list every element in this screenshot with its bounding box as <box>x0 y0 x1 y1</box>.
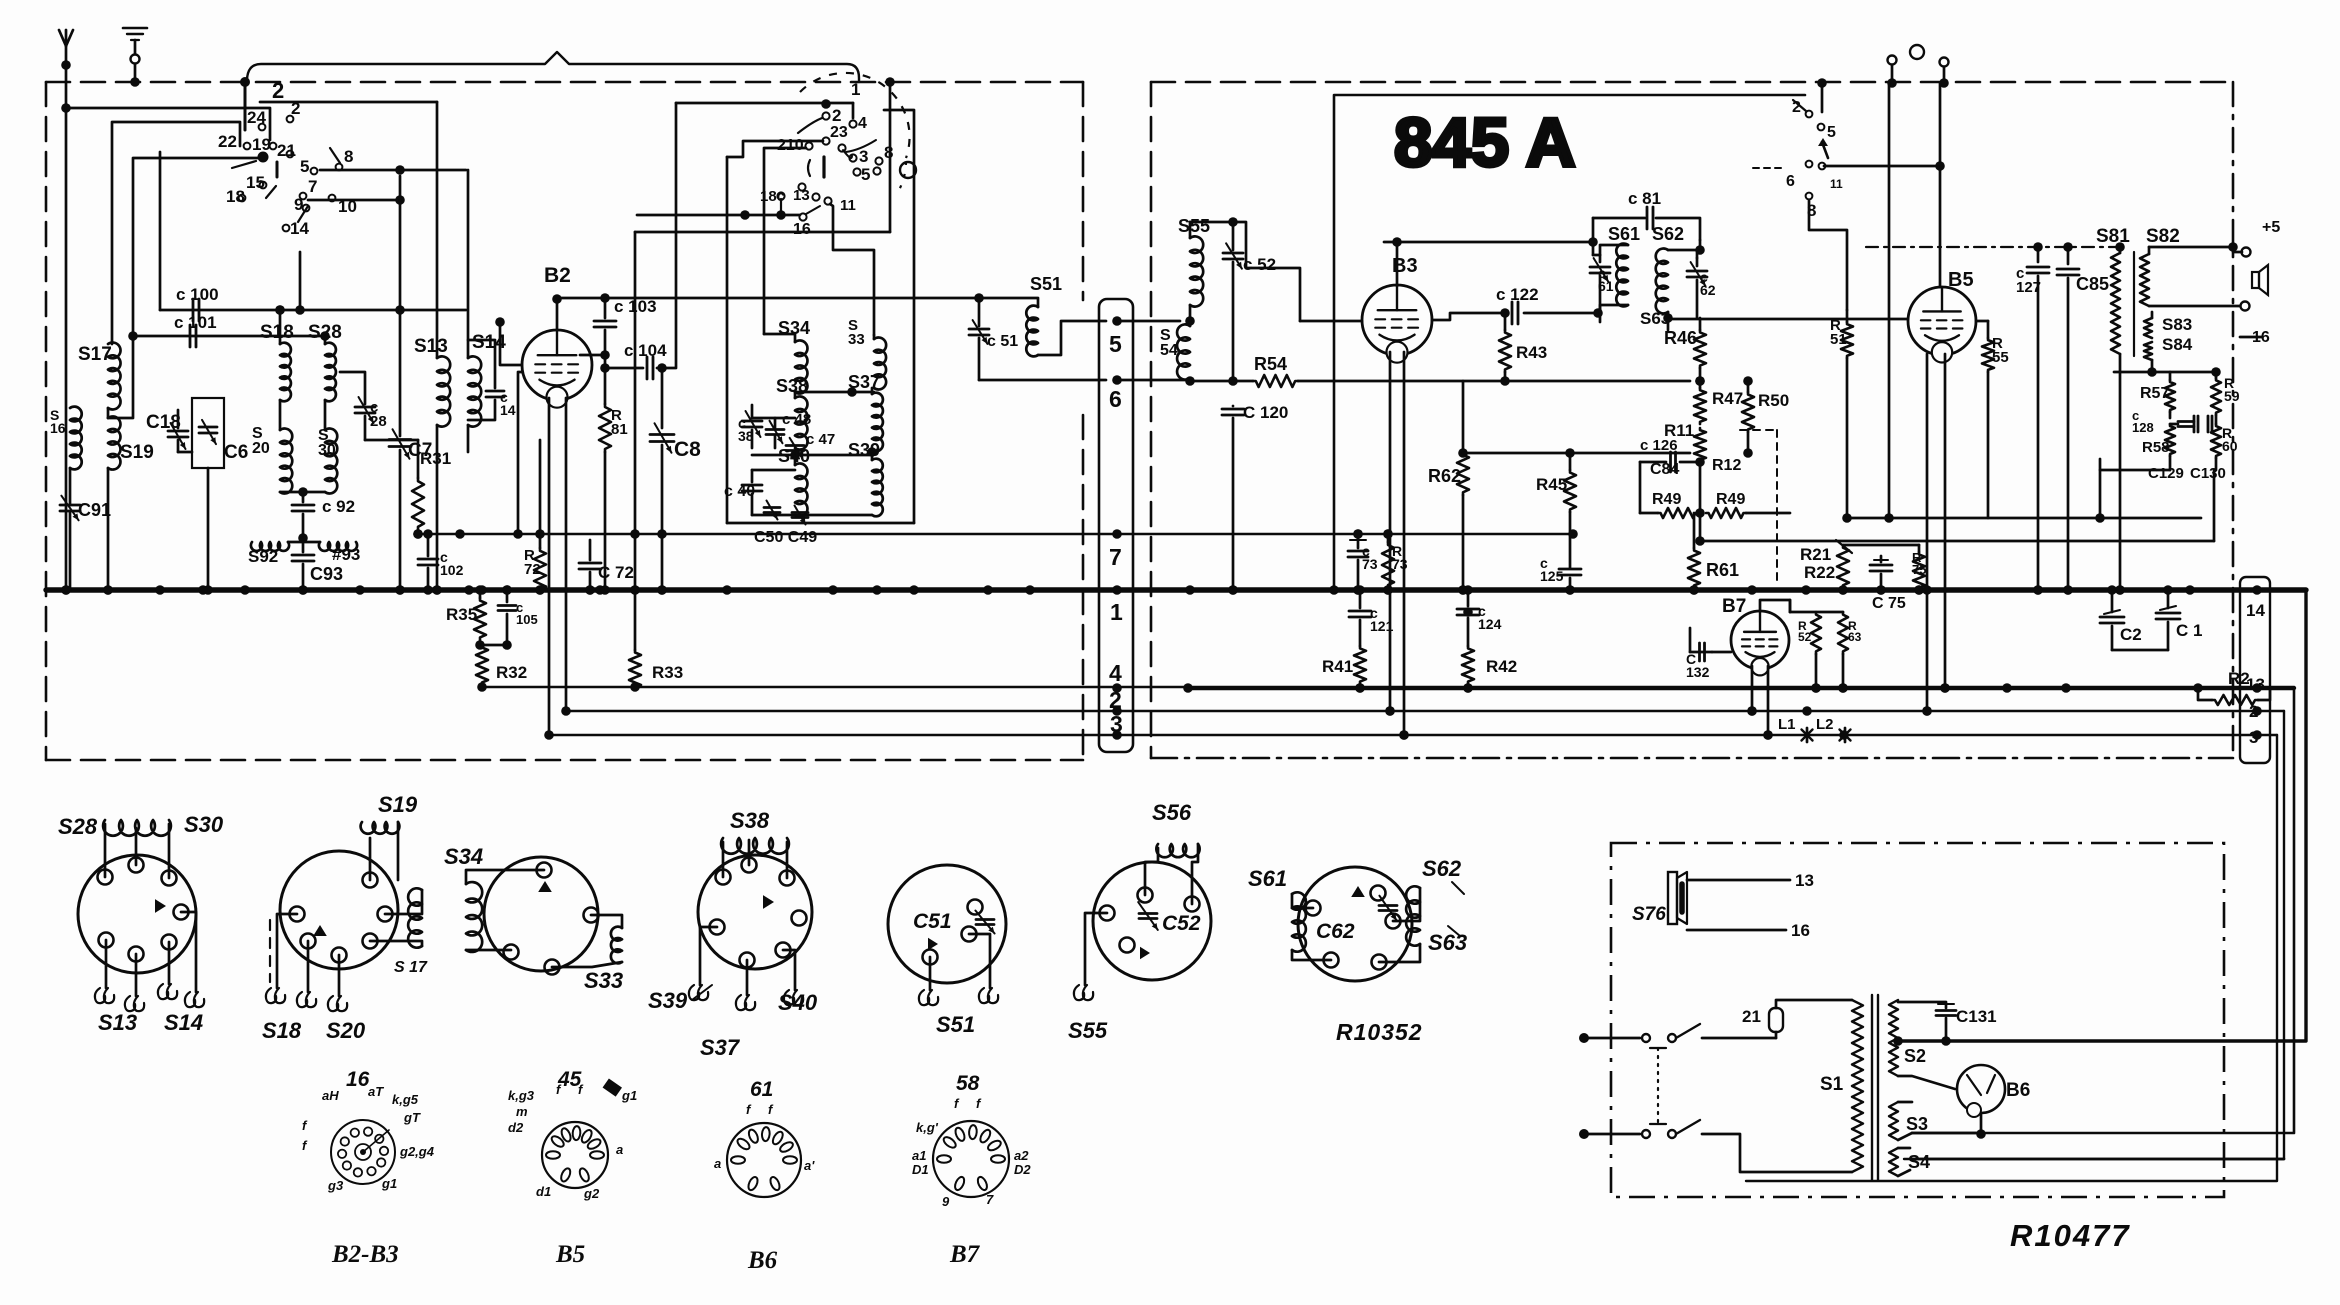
shield canopy <box>247 52 859 82</box>
osc switch contacts <box>777 112 882 220</box>
svg-text:B6: B6 <box>747 1247 778 1274</box>
bus junction <box>155 585 165 595</box>
duct pin 5 <box>1109 331 1122 357</box>
antenna feed <box>61 65 71 595</box>
pin label f <box>954 1096 960 1111</box>
claw S51 <box>919 988 998 1005</box>
svg-text:1: 1 <box>1110 599 1123 625</box>
claw S18 <box>266 988 316 1007</box>
wire <box>1817 78 1827 112</box>
wire <box>295 252 305 315</box>
svg-text:c 92: c 92 <box>322 497 355 516</box>
coil S33 side <box>552 915 622 967</box>
svg-text:8: 8 <box>344 147 353 166</box>
pin label f <box>302 1138 308 1153</box>
label S33 <box>848 317 865 348</box>
label C40 <box>724 483 755 500</box>
wire <box>1702 1037 1776 1040</box>
wire <box>1702 1134 1852 1172</box>
label C121 <box>1370 605 1394 634</box>
svg-text:16: 16 <box>50 420 66 436</box>
svg-text:S83: S83 <box>2162 315 2192 334</box>
label R10477 <box>2010 1218 2131 1253</box>
osc pin 13 <box>793 187 810 204</box>
coil S34 side <box>466 870 544 952</box>
wire <box>260 101 437 104</box>
label S33 <box>584 968 623 993</box>
wire <box>1687 879 1790 882</box>
B2 heater leg <box>544 398 554 740</box>
label S19 <box>378 792 418 817</box>
svg-text:C50 C49: C50 C49 <box>754 529 817 546</box>
svg-text:m: m <box>516 1104 528 1119</box>
wire <box>1976 1113 1986 1139</box>
wire <box>1600 305 1628 322</box>
svg-text:C18: C18 <box>146 412 181 433</box>
label R35 <box>446 605 477 624</box>
wire <box>1824 161 1945 171</box>
wire <box>277 914 308 992</box>
coil S33 <box>874 335 886 390</box>
label 16 <box>1791 921 1810 940</box>
wire B3 grid <box>1300 320 1362 323</box>
svg-text:22: 22 <box>218 132 237 151</box>
svg-text:S56: S56 <box>1152 800 1192 825</box>
svg-text:S92: S92 <box>248 547 278 566</box>
wire <box>2149 242 2238 252</box>
pin label f <box>556 1082 562 1097</box>
label R43 <box>1516 343 1547 362</box>
switch pin 15 <box>246 173 265 192</box>
arrow <box>928 938 938 950</box>
svg-text:125: 125 <box>1540 568 1564 584</box>
former S34/S33 <box>484 857 599 975</box>
former S18/S20/S19 <box>280 851 398 969</box>
label R21 <box>1800 545 1831 564</box>
osc pin 2 <box>832 106 841 125</box>
svg-text:C130: C130 <box>2190 465 2226 482</box>
socket name B5 <box>555 1241 585 1268</box>
cap C120 <box>1222 406 1244 595</box>
bus junction <box>432 585 442 595</box>
bus junction <box>464 585 474 595</box>
label R60 <box>2222 425 2238 454</box>
label S81 <box>2096 226 2130 247</box>
svg-text:61: 61 <box>750 1078 773 1101</box>
svg-text:845 A: 845 A <box>1394 104 1576 181</box>
label R2 <box>2228 669 2250 688</box>
label S82 <box>2146 226 2180 247</box>
label C100 <box>176 285 219 304</box>
svg-text:81: 81 <box>611 421 628 438</box>
wire <box>160 305 466 315</box>
trimmer C18 <box>168 410 188 452</box>
top terminal <box>1939 58 1949 88</box>
svg-text:S39: S39 <box>848 440 880 460</box>
svg-text:C85: C85 <box>2076 274 2109 294</box>
svg-text:5: 5 <box>1109 331 1122 357</box>
line 13 wrap <box>1912 688 2294 1133</box>
cap C48 <box>766 418 784 448</box>
svg-text:11: 11 <box>1830 177 1843 191</box>
label R55 <box>1992 335 2009 366</box>
label C128 <box>2132 408 2154 435</box>
bus junction <box>909 585 919 595</box>
wire <box>159 152 162 310</box>
label S34 <box>444 844 483 869</box>
svg-text:S13: S13 <box>414 336 448 357</box>
B5 heater leg <box>1922 354 1932 716</box>
column pin 2 <box>2249 702 2258 721</box>
svg-text:S3: S3 <box>1906 1114 1928 1134</box>
label C81 <box>1628 189 1661 208</box>
switch pin 9 <box>294 195 303 214</box>
wire <box>475 640 507 650</box>
wire <box>1847 517 2201 520</box>
frame right dashed box <box>1151 82 2233 758</box>
label S40 <box>778 990 818 1015</box>
coil S17 side <box>370 888 422 947</box>
supply line 4 <box>482 687 2294 688</box>
switch pin 6 <box>1786 173 1795 190</box>
wire <box>1185 316 1195 326</box>
psu dashed box <box>1611 843 2224 1197</box>
trimmer inside C62 <box>1379 896 1397 921</box>
label S30 <box>318 427 336 459</box>
wire <box>783 950 795 990</box>
svg-text:S37: S37 <box>848 372 880 392</box>
cap C125 <box>1559 569 1581 595</box>
cap C128 <box>2170 412 2194 427</box>
wire <box>1524 308 1603 318</box>
wire <box>1593 245 1628 255</box>
wire <box>2112 649 2168 652</box>
rectifier B6 <box>1957 1065 2005 1117</box>
trimmer C7 <box>389 176 411 595</box>
line4 junction <box>1183 683 1193 693</box>
wire <box>1695 470 2214 546</box>
former C51/S51 <box>888 865 1006 983</box>
label R50 <box>1758 391 1789 410</box>
switch pin 21 <box>277 141 296 160</box>
line2 junction <box>1385 706 1395 716</box>
svg-text:c 40: c 40 <box>724 483 755 500</box>
svg-text:a: a <box>616 1142 623 1157</box>
wire <box>468 340 495 388</box>
label R58 <box>2142 439 2170 456</box>
socket label 61 <box>750 1078 773 1101</box>
svg-text:g1: g1 <box>381 1176 397 1191</box>
osc line 232 <box>635 231 890 234</box>
svg-text:S81: S81 <box>2096 226 2130 247</box>
bus junction <box>198 585 208 595</box>
bus junction <box>2185 585 2195 595</box>
wire contact210 <box>764 148 806 334</box>
svg-text:52: 52 <box>1798 630 1812 644</box>
coil S34 <box>764 334 807 394</box>
claw S55 <box>1074 985 1093 1000</box>
svg-text:d2: d2 <box>508 1120 524 1135</box>
resistor R73 <box>1382 529 1394 595</box>
svg-text:S62: S62 <box>1652 224 1684 244</box>
resistor R62 <box>1457 381 1469 595</box>
svg-text:S18: S18 <box>262 1018 302 1043</box>
svg-text:S1: S1 <box>1820 1074 1844 1095</box>
bus junction <box>1185 585 1195 595</box>
bus junction <box>477 585 487 595</box>
osc pin 3 <box>859 147 868 166</box>
label S37 <box>700 1035 741 1060</box>
label C126 <box>1640 437 1678 454</box>
claw S20 <box>328 996 347 1011</box>
label B6 <box>2006 1080 2030 1101</box>
bus junction <box>240 585 250 595</box>
resistor R50 <box>1742 376 1754 458</box>
svg-text:38: 38 <box>738 428 754 444</box>
earth symbol <box>123 28 147 87</box>
bus junction <box>1565 585 1575 595</box>
label S2 <box>1904 1046 1926 1066</box>
label S20 <box>252 425 270 457</box>
bus junction <box>828 585 838 595</box>
svg-text:60: 60 <box>2222 438 2238 454</box>
resistor R81 <box>599 404 611 595</box>
coil S28 <box>325 343 336 402</box>
pin label d1 <box>536 1184 551 1199</box>
svg-text:S62: S62 <box>1422 856 1462 881</box>
trimmer C91 <box>60 468 80 590</box>
dashed stub <box>269 920 271 982</box>
valve B2 <box>522 330 592 408</box>
wire contact8 <box>885 77 895 232</box>
line4 junction <box>2061 683 2071 693</box>
socket B6 <box>727 1123 801 1197</box>
resistor R75 <box>1913 545 1925 595</box>
label C18 <box>146 412 181 433</box>
label R31 <box>420 449 451 468</box>
coil S62 <box>1656 249 1668 314</box>
svg-text:gT: gT <box>403 1110 421 1125</box>
resistor R63 <box>1838 612 1848 693</box>
svg-text:S51: S51 <box>936 1012 975 1037</box>
cap C121 <box>1349 585 1371 646</box>
svg-text:R50: R50 <box>1758 391 1789 410</box>
wire <box>1668 240 1705 258</box>
osc switch wafer <box>800 73 910 192</box>
svg-text:S38: S38 <box>776 376 808 396</box>
cap C49 <box>792 506 808 525</box>
wire <box>280 487 325 502</box>
wire contact11 <box>830 204 874 335</box>
label S51 <box>936 1012 975 1037</box>
svg-text:R47: R47 <box>1712 389 1743 408</box>
wire <box>338 955 341 996</box>
cap C93 <box>292 542 314 595</box>
wire <box>1699 513 1702 540</box>
svg-text:2: 2 <box>272 78 284 103</box>
pin label f <box>768 1102 774 1117</box>
label R47 <box>1712 389 1743 408</box>
label S17b <box>394 959 428 976</box>
label C52 <box>1243 255 1276 274</box>
duct pin 4 <box>1109 660 1122 686</box>
line 3 wrap <box>1746 735 2277 1181</box>
bus junction <box>1747 585 1757 595</box>
duct pin 2 <box>1109 687 1122 713</box>
former S56/C52 <box>1093 862 1211 980</box>
grid avc <box>513 372 523 539</box>
label C6 <box>224 442 248 463</box>
bus junction <box>1922 585 1932 595</box>
wire <box>723 840 787 878</box>
svg-text:11: 11 <box>840 197 856 214</box>
wire <box>2149 302 2250 311</box>
pin label g1 <box>381 1176 397 1191</box>
duct pin 3 <box>1110 711 1123 737</box>
label S13 <box>414 336 448 357</box>
cap C1 <box>2156 585 2180 650</box>
wire <box>1843 544 1919 547</box>
wire <box>552 294 562 330</box>
svg-text:5: 5 <box>861 165 870 184</box>
label S62 <box>1652 224 1684 244</box>
label 15 term <box>2233 219 2280 257</box>
label S38 <box>730 808 770 833</box>
trimmer C8 <box>650 363 674 595</box>
speaker coil S76 <box>1668 872 1687 924</box>
svg-text:C91: C91 <box>78 500 111 520</box>
label R63 <box>1848 619 1862 644</box>
label S18 <box>262 1018 302 1043</box>
svg-text:4: 4 <box>1109 660 1122 686</box>
trimmer inside C52 <box>1138 902 1158 930</box>
wire <box>1117 320 1180 323</box>
svg-text:C2: C2 <box>2120 625 2142 644</box>
cap C101 <box>190 325 196 347</box>
svg-text:a2: a2 <box>1014 1148 1029 1163</box>
svg-text:S84: S84 <box>2162 335 2193 354</box>
pin label f <box>578 1082 584 1097</box>
resistor R55 <box>1976 321 1994 518</box>
svg-text:+5: +5 <box>2262 219 2280 236</box>
label S55 <box>1178 216 1210 236</box>
switch pin 10 <box>338 197 357 216</box>
svg-text:C131: C131 <box>1956 1007 1997 1026</box>
trimmer C51 <box>969 298 989 380</box>
B7 heater leg <box>1763 666 1773 740</box>
valve B5 <box>1908 287 1976 362</box>
svg-text:S55: S55 <box>1068 1018 1108 1043</box>
svg-text:124: 124 <box>1478 616 1502 632</box>
svg-text:16: 16 <box>793 221 811 238</box>
svg-text:102: 102 <box>440 562 464 578</box>
svg-text:S4: S4 <box>1908 1152 1930 1172</box>
pin label m <box>516 1104 528 1119</box>
label S30 <box>184 812 224 837</box>
wire <box>1640 462 1705 518</box>
label R33 <box>652 663 683 682</box>
coil S16 label <box>50 407 66 436</box>
svg-text:C129: C129 <box>2148 465 2184 482</box>
svg-text:21: 21 <box>277 141 296 160</box>
wire <box>1145 848 1158 895</box>
resistor R35 <box>474 585 486 640</box>
label C132 <box>1686 651 1710 680</box>
socket B2-B3 <box>331 1120 395 1184</box>
bus junction <box>2115 585 2125 595</box>
label C62 <box>1316 920 1355 943</box>
resistor R11 <box>1694 428 1706 462</box>
svg-text:C 1: C 1 <box>2176 621 2202 640</box>
label C1 <box>2176 621 2202 640</box>
cap C75 <box>1870 556 1892 595</box>
resistor R31 <box>412 440 424 539</box>
svg-text:S 17: S 17 <box>394 959 428 976</box>
svg-text:14: 14 <box>2246 601 2265 620</box>
switch pin 5 <box>300 157 309 176</box>
xfmr sec S4 <box>1889 1148 1910 1176</box>
line7 junction <box>413 529 423 539</box>
svg-text:a: a <box>714 1156 721 1171</box>
svg-text:24: 24 <box>247 108 266 127</box>
label S20 <box>326 1018 366 1043</box>
resistor R60 <box>2211 415 2221 470</box>
wire <box>105 824 169 878</box>
label C51 <box>987 333 1018 350</box>
band switch right <box>1753 100 1828 199</box>
svg-text:R35: R35 <box>446 605 477 624</box>
wire <box>365 439 418 442</box>
cap C105 <box>498 585 516 650</box>
svg-text:S30: S30 <box>184 812 224 837</box>
coil S16 <box>70 407 82 470</box>
antenna <box>59 30 73 70</box>
svg-text:B5: B5 <box>555 1241 585 1268</box>
label R59 <box>2224 375 2240 404</box>
valve B3 <box>1362 285 1432 363</box>
osc pin 1 <box>851 80 860 99</box>
svg-text:S63: S63 <box>1640 309 1670 328</box>
label R49a <box>1652 491 1681 508</box>
svg-text:S20: S20 <box>326 1018 366 1043</box>
winding S84 <box>2144 342 2152 372</box>
coil S13 <box>432 102 450 595</box>
label S39 <box>848 440 880 460</box>
svg-text:7: 7 <box>1109 544 1122 570</box>
wire <box>1939 83 1942 287</box>
label C125 <box>1540 555 1564 584</box>
label B3 <box>1392 255 1418 277</box>
coil S92 <box>251 542 303 551</box>
coil S62 side <box>1379 886 1420 962</box>
switch pin 19 <box>252 135 271 154</box>
svg-text:S19: S19 <box>120 442 154 463</box>
svg-text:13: 13 <box>793 187 810 204</box>
svg-text:S34: S34 <box>444 844 483 869</box>
coil S38 <box>795 392 807 450</box>
label C101 <box>174 313 217 332</box>
cap C47 <box>786 438 804 458</box>
svg-text:S37: S37 <box>700 1035 741 1060</box>
wire <box>930 934 990 990</box>
wire <box>298 514 308 543</box>
B3 anode <box>1432 313 1506 320</box>
label R42 <box>1486 657 1517 676</box>
svg-text:c 100: c 100 <box>176 285 219 304</box>
trimmer C6 <box>199 420 217 595</box>
svg-text:6: 6 <box>1109 386 1122 412</box>
svg-text:28: 28 <box>370 413 387 430</box>
